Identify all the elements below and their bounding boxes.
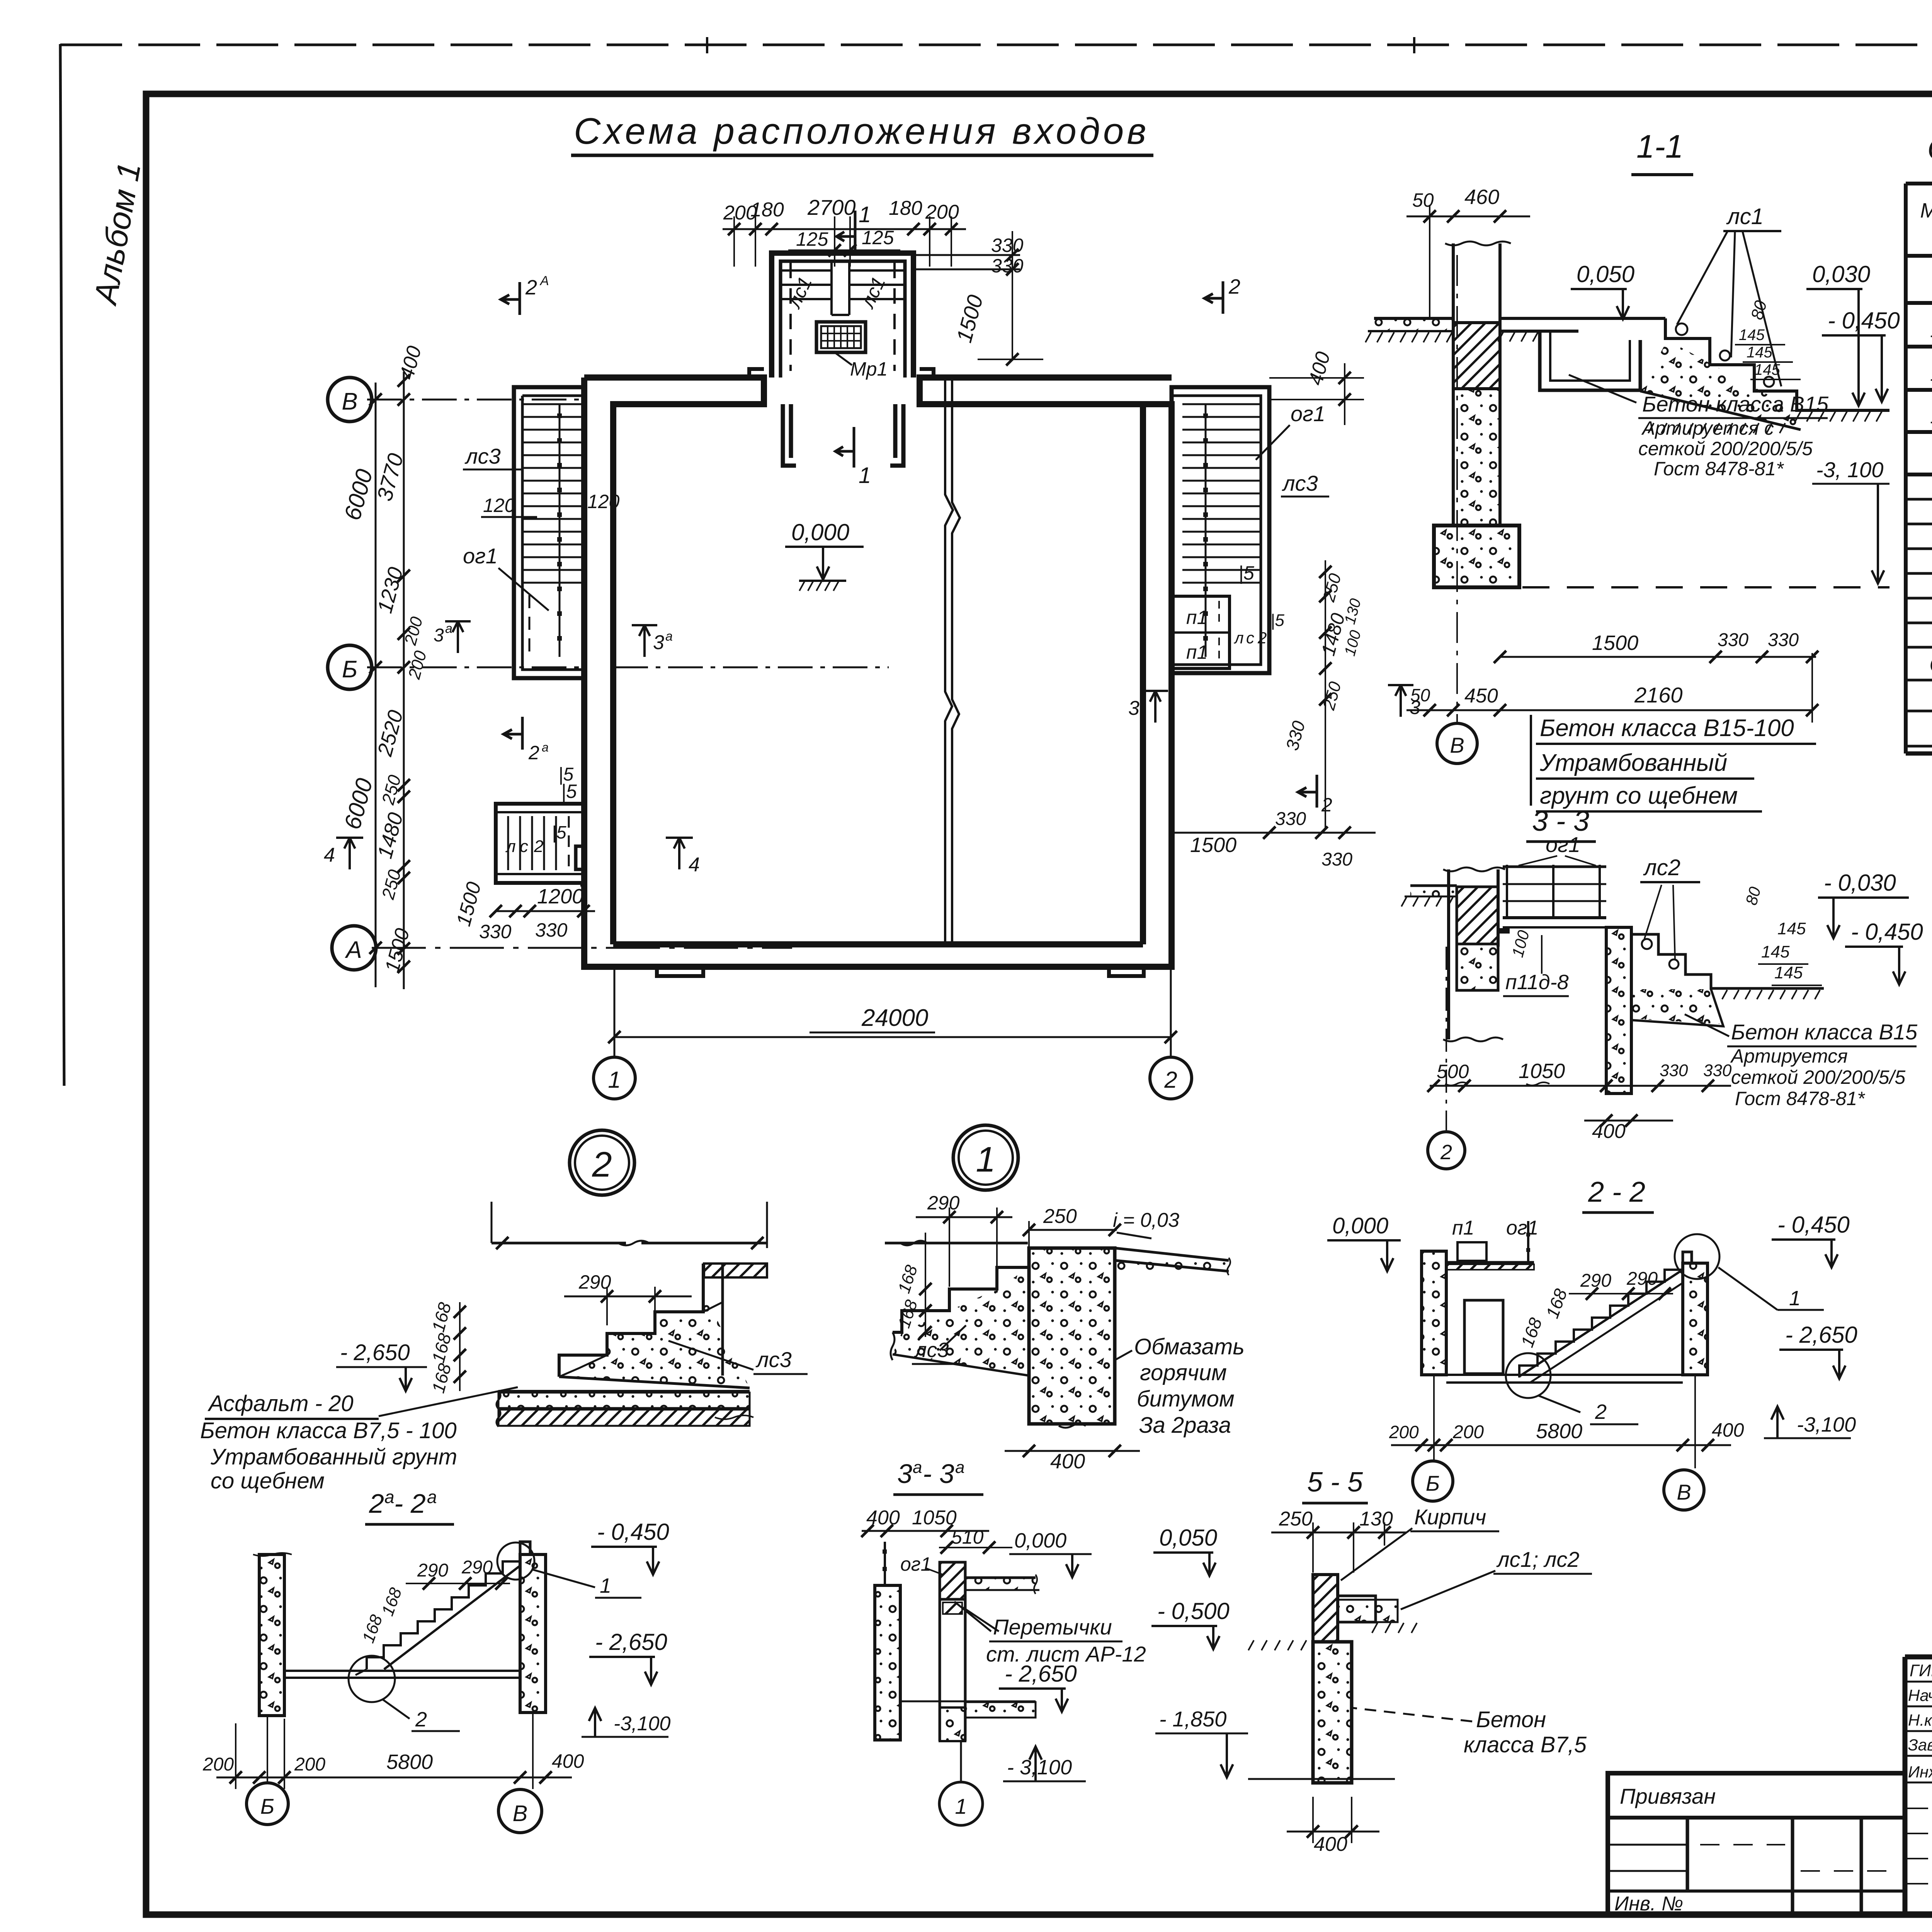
- svg-text:л: л: [505, 837, 516, 856]
- detail 2 balloon: [570, 1130, 634, 1195]
- svg-text:|5: |5: [1270, 611, 1284, 630]
- section 1-1 dimension 50 460: [1406, 216, 1530, 218]
- svg-text:Привязан: Привязан: [1620, 1784, 1716, 1808]
- svg-text:горячим: горячим: [1140, 1360, 1227, 1385]
- right stair landing slabs P1: [1172, 596, 1230, 668]
- svg-text:Обмазать: Обмазать: [1134, 1334, 1245, 1359]
- svg-text:В: В: [513, 1801, 528, 1826]
- svg-text:330: 330: [991, 235, 1024, 256]
- svg-text:2: 2: [1228, 275, 1240, 298]
- svg-text:5800: 5800: [1536, 1420, 1582, 1443]
- svg-text:290: 290: [417, 1560, 448, 1581]
- plan lower-left stair box ls2: [496, 804, 583, 883]
- section 3-3 left wall: [1449, 869, 1498, 1039]
- sheet outer border top dashed line: [60, 44, 1932, 46]
- svg-text:2: 2: [1257, 629, 1267, 647]
- svg-text:3: 3: [897, 1459, 912, 1489]
- detail 1 top floor line with 250 dim: [885, 1242, 1028, 1245]
- svg-text:Нач.отд: Нач.отд: [1908, 1686, 1932, 1704]
- section 2-2 stair slope ls2: [1519, 1270, 1683, 1378]
- detail 1 balloon: [953, 1125, 1018, 1190]
- section 2-2 right pier: [1683, 1263, 1708, 1375]
- section 3a-3a axis circle 1: [960, 1741, 962, 1782]
- svg-text:а: а: [913, 1458, 922, 1477]
- svg-text:5800: 5800: [386, 1750, 433, 1774]
- svg-text:Перетычки: Перетычки: [993, 1615, 1112, 1639]
- section 2a-2a left pier: [259, 1554, 284, 1716]
- svg-text:Б: Б: [1426, 1471, 1440, 1495]
- svg-text:л: л: [1233, 629, 1244, 647]
- detail 2 stair steps ls3: [559, 1264, 703, 1377]
- svg-text:2160: 2160: [1634, 683, 1683, 707]
- plan bottom dimension 24000: [614, 1036, 1171, 1038]
- svg-text:2: 2: [1595, 1400, 1607, 1423]
- svg-text:400: 400: [552, 1750, 584, 1772]
- svg-text:- 3,100: - 3,100: [1007, 1756, 1072, 1779]
- section mark 1 top: [837, 211, 855, 251]
- svg-text:1: 1: [955, 1794, 967, 1818]
- svg-text:0,000: 0,000: [1332, 1213, 1388, 1238]
- plan right stair enclosure: [1172, 387, 1269, 673]
- svg-text:400: 400: [1592, 1120, 1626, 1143]
- svg-text:4: 4: [324, 844, 335, 866]
- svg-text:лс2: лс2: [1643, 855, 1680, 880]
- svg-text:450: 450: [1464, 685, 1498, 707]
- svg-text:1-1: 1-1: [1636, 128, 1683, 165]
- svg-text:В: В: [1450, 733, 1464, 757]
- svg-text:1: 1: [859, 202, 871, 227]
- svg-text:330: 330: [1660, 1061, 1688, 1080]
- axis circle B: [328, 645, 372, 689]
- sheet outer border left line: [60, 44, 64, 1086]
- svg-text:120: 120: [483, 495, 515, 516]
- svg-text:2: 2: [528, 742, 539, 764]
- concrete note for section 1-1 floor: [1530, 715, 1532, 806]
- svg-text:ог1: ог1: [1291, 401, 1325, 426]
- plan bottom-right dims 1500 330 330: [1175, 832, 1376, 834]
- svg-text:3: 3: [434, 625, 444, 646]
- axis circle A: [332, 926, 376, 970]
- svg-text:А: А: [539, 274, 549, 288]
- svg-text:Ог1: Ог1: [1929, 651, 1932, 677]
- svg-text:330: 330: [535, 919, 568, 941]
- detail 1 steps left ls3: [893, 1267, 1029, 1332]
- svg-text:Бетон: Бетон: [1476, 1707, 1546, 1732]
- svg-text:1: 1: [976, 1140, 995, 1179]
- section 3a-3a center wall: [940, 1562, 965, 1599]
- svg-text:-3, 100: -3, 100: [1816, 457, 1883, 482]
- svg-text:Н.контр: Н.контр: [1908, 1711, 1932, 1729]
- svg-text:400: 400: [1712, 1419, 1744, 1441]
- svg-text:2: 2: [369, 1488, 384, 1519]
- axis circle V: [328, 378, 372, 422]
- plan left dimension chains: [369, 372, 410, 989]
- svg-text:5 - 5: 5 - 5: [1307, 1467, 1363, 1498]
- svg-text:лс3: лс3: [1282, 471, 1318, 495]
- section 2a-2a right pier: [520, 1554, 546, 1713]
- svg-text:24000: 24000: [861, 1005, 928, 1031]
- svg-text:125: 125: [862, 227, 894, 248]
- svg-text:Утрамбованный грунт: Утрамбованный грунт: [210, 1444, 457, 1469]
- svg-text:- 1,850: - 1,850: [1159, 1707, 1226, 1731]
- svg-text:ог1: ог1: [900, 1553, 931, 1575]
- svg-text:330: 330: [1321, 849, 1352, 870]
- svg-text:1: 1: [859, 463, 871, 488]
- svg-text:- 2: - 2: [394, 1488, 426, 1519]
- svg-text:i = 0,03: i = 0,03: [1113, 1209, 1179, 1231]
- svg-text:330: 330: [479, 921, 512, 942]
- title block signature rows: [1905, 1682, 1932, 1884]
- privyazan box: [1608, 1773, 1905, 1913]
- svg-text:0,000: 0,000: [1014, 1529, 1066, 1552]
- svg-text:Бетон класса В15-100: Бетон класса В15-100: [1540, 715, 1794, 742]
- svg-text:Гост 8478-81*: Гост 8478-81*: [1654, 458, 1784, 480]
- floor plan walls: [576, 369, 1172, 976]
- svg-text:а: а: [665, 629, 673, 644]
- section 2-2 detail circle 1: [1675, 1234, 1719, 1279]
- svg-text:145: 145: [1754, 361, 1780, 378]
- svg-text:3: 3: [653, 631, 664, 654]
- axis circle 1 bottom: [614, 967, 616, 1057]
- plan section marks: [501, 282, 520, 315]
- svg-text:2: 2: [525, 276, 537, 299]
- svg-text:2: 2: [1321, 794, 1332, 816]
- svg-text:145: 145: [1777, 919, 1806, 938]
- section 2-2 axis circles: [1433, 1375, 1435, 1461]
- svg-text:400: 400: [1314, 1833, 1347, 1855]
- svg-text:200: 200: [1389, 1422, 1419, 1442]
- section 3-3 right pier and steps ls2: [1606, 927, 1824, 1094]
- svg-text:460: 460: [1464, 185, 1499, 209]
- svg-text:лс1; лс2: лс1; лс2: [1496, 1547, 1580, 1571]
- svg-text:а: а: [955, 1458, 964, 1477]
- section 1-1 wall: [1434, 243, 1519, 587]
- section mark 1 inside plan: [835, 427, 854, 468]
- svg-text:п1: п1: [1452, 1217, 1475, 1239]
- section 3a-3a left pier: [875, 1585, 900, 1740]
- svg-text:Бетон класса В15: Бетон класса В15: [1731, 1020, 1918, 1044]
- svg-text:п1: п1: [1186, 607, 1207, 628]
- svg-text:Артируется: Артируется: [1730, 1045, 1848, 1067]
- svg-text:- 0,500: - 0,500: [1157, 1598, 1230, 1624]
- svg-text:Утрамбованный: Утрамбованный: [1539, 750, 1727, 776]
- svg-text:0,050: 0,050: [1159, 1525, 1217, 1551]
- svg-text:0,050: 0,050: [1577, 261, 1634, 287]
- svg-text:145: 145: [1774, 963, 1803, 982]
- svg-text:200: 200: [202, 1754, 234, 1775]
- vestibule walls: [772, 253, 913, 378]
- left stair treads ls3: [522, 404, 584, 583]
- door jambs of entrance: [783, 404, 903, 466]
- svg-text:- 2,650: - 2,650: [1005, 1661, 1077, 1687]
- section 2-2 detail circle 2: [1506, 1353, 1551, 1398]
- svg-text:0,030: 0,030: [1812, 261, 1870, 287]
- svg-text:За 2раза: За 2раза: [1139, 1413, 1231, 1438]
- section 3-3 floor left: [1410, 884, 1457, 887]
- section 2a-2a detail circles: [349, 1656, 395, 1702]
- svg-text:500: 500: [1437, 1061, 1469, 1082]
- section 1-1 axis mark: [1388, 685, 1413, 717]
- svg-text:с: с: [520, 837, 528, 856]
- svg-text:2700: 2700: [807, 195, 856, 219]
- svg-text:битумом: битумом: [1137, 1386, 1235, 1412]
- svg-text:класса В7,5: класса В7,5: [1464, 1732, 1587, 1757]
- detail 2 floor layers: [498, 1390, 750, 1392]
- svg-text:а: а: [427, 1487, 437, 1507]
- svg-text:1050: 1050: [1519, 1060, 1565, 1083]
- svg-text:Кирпич: Кирпич: [1414, 1505, 1486, 1529]
- vestibule right dimension 330 330 1500: [913, 231, 1043, 366]
- svg-text:125: 125: [796, 228, 828, 250]
- svg-text:180: 180: [889, 197, 922, 219]
- svg-text:Инв. №: Инв. №: [1614, 1893, 1683, 1915]
- svg-text:Артируется с: Артируется с: [1641, 417, 1774, 439]
- svg-text:290: 290: [1580, 1270, 1611, 1291]
- svg-text:2: 2: [1164, 1067, 1177, 1093]
- svg-text:Марка: Марка: [1920, 199, 1932, 222]
- svg-text:- 0,450: - 0,450: [1851, 919, 1923, 945]
- svg-text:1500: 1500: [1592, 631, 1638, 655]
- section 2-2 bottom floor: [1446, 1374, 1683, 1376]
- vestibule entrance steps ls1: [781, 261, 905, 315]
- svg-text:- 0,030: - 0,030: [1824, 870, 1896, 896]
- svg-text:1: 1: [608, 1067, 621, 1093]
- svg-text:сеткой 200/200/5/5: сеткой 200/200/5/5: [1731, 1066, 1905, 1088]
- svg-text:4: 4: [689, 854, 700, 876]
- svg-text:1: 1: [600, 1574, 611, 1597]
- svg-text:2: 2: [415, 1708, 427, 1731]
- section 2a-2a floor line: [284, 1670, 520, 1672]
- svg-text:290: 290: [578, 1271, 611, 1293]
- grille MP1: [816, 322, 866, 352]
- svg-text:Бетон класса В15: Бетон класса В15: [1642, 392, 1829, 416]
- section 1-1 bottom dims: [1500, 656, 1816, 658]
- svg-text:145: 145: [1739, 327, 1765, 344]
- svg-text:145: 145: [1747, 344, 1772, 361]
- detail 1 bottom dim 400: [1005, 1450, 1140, 1452]
- svg-text:лс3: лс3: [464, 444, 501, 468]
- section 2a-2a stair slope: [367, 1561, 520, 1669]
- svg-text:50: 50: [1412, 189, 1434, 211]
- svg-text:ГИП: ГИП: [1910, 1661, 1932, 1680]
- svg-text:Инж.: Инж.: [1908, 1763, 1932, 1781]
- svg-text:со щебнем: со щебнем: [211, 1468, 325, 1493]
- plan axis lines and circles: [367, 400, 889, 948]
- svg-text:ог1: ог1: [1506, 1217, 1538, 1239]
- detail 2 top floor line: [492, 1242, 626, 1245]
- svg-text:а: а: [384, 1487, 395, 1507]
- svg-text:290: 290: [461, 1557, 493, 1578]
- svg-text:130: 130: [1359, 1508, 1393, 1530]
- svg-text:|5: |5: [1238, 562, 1254, 584]
- svg-text:- 3: - 3: [923, 1459, 954, 1489]
- svg-text:ог1: ог1: [1546, 832, 1580, 857]
- svg-text:330: 330: [1768, 630, 1799, 650]
- svg-text:Мр1: Мр1: [850, 358, 888, 380]
- section 2a-2a bottom dims: [216, 1777, 572, 1779]
- grille label Mp1: [835, 352, 852, 365]
- svg-text:п11д-8: п11д-8: [1505, 971, 1569, 994]
- svg-text:1500: 1500: [1190, 833, 1236, 857]
- section 5-5 bottom dim 400: [1287, 1831, 1379, 1833]
- expansion joint break lines: [945, 379, 953, 943]
- section 3-3 landing slab: [1503, 916, 1606, 919]
- svg-text:с: с: [1246, 629, 1254, 647]
- svg-text:- 2,650: - 2,650: [340, 1340, 410, 1365]
- svg-text:В: В: [342, 388, 357, 415]
- section 3-3 bottom dims: [1430, 1085, 1731, 1087]
- svg-text:А: А: [344, 937, 362, 963]
- svg-text:|5: |5: [552, 822, 566, 842]
- svg-text:Асфальт - 20: Асфальт - 20: [207, 1391, 354, 1416]
- svg-text:-3,100: -3,100: [1797, 1413, 1856, 1436]
- detail 2 168 dims: [459, 1302, 461, 1391]
- svg-text:3: 3: [1128, 697, 1139, 719]
- svg-text:2 - 2: 2 - 2: [1588, 1176, 1645, 1208]
- svg-text:лс3: лс3: [755, 1347, 792, 1372]
- left stair railing og1: [559, 404, 561, 657]
- detail 1 pier: [1029, 1248, 1115, 1424]
- svg-text:200: 200: [1452, 1422, 1484, 1442]
- svg-text:330: 330: [1275, 809, 1306, 829]
- title block grid: [1905, 1657, 1932, 1913]
- section 1-1 entrance platform and steps ls1: [1500, 318, 1889, 430]
- svg-text:Спецификация к схеме распол: Спецификация к схеме расположения входов: [1927, 132, 1932, 166]
- section 5-5 wall: [1313, 1575, 1338, 1642]
- svg-text:Схема расположения входов: Схема расположения входов: [574, 111, 1149, 152]
- axis circle 2 bottom: [1170, 967, 1172, 1057]
- section 2-2 left pier: [1422, 1251, 1446, 1375]
- svg-text:290: 290: [1626, 1269, 1658, 1289]
- svg-text:-3,100: -3,100: [614, 1713, 671, 1735]
- svg-text:- 0,450: - 0,450: [597, 1519, 669, 1545]
- svg-text:1: 1: [1789, 1287, 1801, 1310]
- svg-text:3: 3: [1410, 697, 1420, 718]
- svg-text:|5: |5: [558, 764, 573, 785]
- svg-text:- 0,450: - 0,450: [1777, 1212, 1850, 1238]
- svg-text:лс1: лс1: [1726, 204, 1764, 229]
- svg-text:2: 2: [592, 1145, 612, 1184]
- svg-text:ог1: ог1: [463, 544, 498, 568]
- svg-text:330: 330: [1703, 1061, 1732, 1080]
- plan left stair enclosure: [514, 387, 584, 678]
- vestibule top dimension chain 200 180 2700 180 200: [723, 195, 966, 267]
- svg-text:Б: Б: [342, 656, 357, 683]
- svg-text:120: 120: [587, 491, 620, 512]
- svg-text:250: 250: [1043, 1205, 1077, 1228]
- svg-text:250: 250: [1279, 1508, 1313, 1530]
- svg-text:В: В: [1677, 1480, 1691, 1504]
- section 3-3 axis circle 2: [1446, 947, 1447, 1130]
- svg-text:Зав.гр.: Зав.гр.: [1908, 1736, 1932, 1754]
- svg-text:330: 330: [1718, 630, 1748, 650]
- svg-text:п1: п1: [1186, 641, 1207, 663]
- svg-text:Бетон класса В7,5 - 100: Бетон класса В7,5 - 100: [200, 1418, 457, 1443]
- svg-text:- 2,650: - 2,650: [595, 1629, 667, 1655]
- svg-text:0,000: 0,000: [791, 519, 849, 545]
- section 3-3 railing og1: [1503, 865, 1606, 918]
- svg-text:сеткой 200/200/5/5: сеткой 200/200/5/5: [1638, 438, 1813, 459]
- section 2-2 interior doorway: [1464, 1300, 1503, 1374]
- svg-text:Гост 8478-81*: Гост 8478-81*: [1735, 1088, 1865, 1109]
- svg-text:1200: 1200: [537, 885, 583, 908]
- svg-text:2: 2: [1440, 1141, 1452, 1164]
- svg-text:а: а: [542, 740, 549, 754]
- svg-text:1050: 1050: [912, 1507, 957, 1529]
- svg-text:лс3: лс3: [914, 1338, 949, 1362]
- section 5-5 concrete pier: [1313, 1642, 1352, 1783]
- svg-text:200: 200: [294, 1754, 325, 1775]
- svg-text:- 2,650: - 2,650: [1785, 1322, 1857, 1348]
- section 3a-3a floor slabs right: [965, 1577, 1036, 1579]
- section 2a-2a axis circles: [267, 1716, 268, 1782]
- svg-text:а: а: [445, 621, 452, 636]
- fold marks on top border: [706, 37, 708, 53]
- svg-text:400: 400: [1050, 1450, 1085, 1473]
- svg-text:Б: Б: [260, 1794, 274, 1818]
- svg-text:2: 2: [534, 837, 543, 856]
- svg-text:510: 510: [951, 1526, 984, 1548]
- svg-text:145: 145: [1761, 942, 1790, 961]
- specification table grid: [1906, 184, 1932, 753]
- section 2-2 bottom dims: [1391, 1444, 1731, 1446]
- svg-text:- 0,450: - 0,450: [1828, 308, 1900, 333]
- section 1-1 floor left: [1374, 317, 1453, 320]
